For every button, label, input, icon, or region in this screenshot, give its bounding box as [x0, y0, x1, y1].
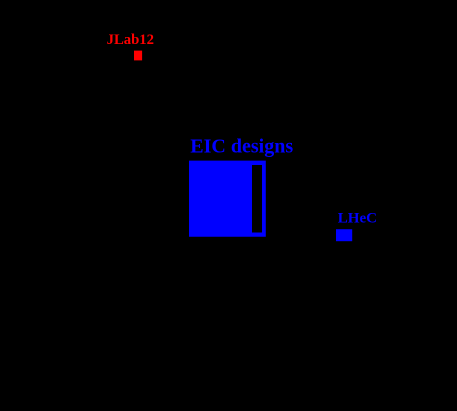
marker JLab12: [134, 51, 142, 61]
marker LHeC: [336, 229, 352, 241]
svg-text:LHeC: LHeC: [338, 211, 377, 227]
svg-text:JLab12: JLab12: [107, 32, 154, 48]
box EIC designs filled with hole: [189, 161, 266, 237]
svg-text:EIC designs: EIC designs: [190, 136, 293, 158]
